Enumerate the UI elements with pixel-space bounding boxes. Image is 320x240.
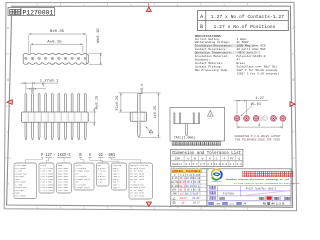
svg-text:0-10: 0-10	[172, 177, 178, 180]
svg-text:P±0.4: P±0.4	[140, 84, 144, 94]
svg-text:Shenzhen LianLian Electronics: Shenzhen LianLian Electronics Technology…	[226, 178, 290, 181]
svg-text:P1270001: P1270001	[23, 9, 54, 16]
svg-text:1.27: 1.27	[255, 97, 264, 101]
svg-text:±0.1: ±0.1	[179, 177, 185, 180]
svg-text:R1: R1	[263, 203, 267, 206]
svg-text:±1°: ±1°	[180, 192, 185, 195]
svg-text:C Cu: C Cu	[98, 181, 103, 184]
svg-text:C: C	[7, 130, 9, 134]
svg-text:±0.5°: ±0.5°	[180, 197, 188, 200]
svg-text::mm: :mm	[216, 203, 221, 206]
svg-text:B: B	[200, 24, 203, 30]
svg-text:SunwayLink: SunwayLink	[212, 181, 222, 183]
svg-text:100-: 100-	[172, 189, 178, 192]
svg-text:Insulation Resistance:: Insulation Resistance:	[195, 44, 233, 48]
svg-text:1:1: 1:1	[230, 203, 235, 206]
svg-text:P1270001: P1270001	[223, 192, 235, 195]
svg-text:±15': ±15'	[194, 192, 200, 195]
svg-text:TAIL(1.0mm): TAIL(1.0mm)	[174, 135, 196, 139]
svg-text:Ø1.63: Ø1.63	[251, 102, 261, 106]
svg-text:Insulation Material:: Insulation Material:	[195, 54, 229, 58]
svg-text:TEL:0755-23456789 CONTACT:1380: TEL:0755-23456789 CONTACT:13800000000 FA…	[233, 182, 300, 185]
svg-text:PCB TOLERANCE:HOLE TOP VIEW: PCB TOLERANCE:HOLE TOP VIEW	[235, 139, 280, 142]
svg-text:-: -	[53, 154, 55, 158]
svg-text:Type D: Type D	[113, 186, 121, 189]
svg-text:±0.15: ±0.15	[179, 181, 187, 184]
svg-text:1XXX 1Row: 1XXX 1Row	[58, 189, 69, 192]
svg-text:Contact Material:: Contact Material:	[195, 61, 224, 65]
svg-text:P=127 TimH/Pin 1002-S: P=127 TimH/Pin 1002-S	[246, 187, 277, 190]
svg-text:1.27 x No.of Positions: 1.27 x No.of Positions	[214, 24, 276, 30]
svg-text:1000 Meg ohms MIN: 1000 Meg ohms MIN	[237, 44, 266, 48]
svg-text:4.2: 4.2	[185, 163, 190, 166]
svg-text:0.4: 0.4	[222, 163, 227, 166]
svg-text:±0.25°: ±0.25°	[192, 197, 201, 200]
svg-text:±0.15: ±0.15	[193, 189, 201, 192]
svg-text:D: D	[7, 182, 9, 186]
svg-text:±0.2: ±0.2	[187, 189, 193, 192]
svg-text:Withstanding Voltage:: Withstanding Voltage:	[195, 40, 231, 44]
svg-text:A4 1:1 B: A4 1:1 B	[272, 203, 285, 206]
svg-text:Pin Header: Pin Header	[15, 194, 26, 197]
svg-text:Current Rating:: Current Rating:	[195, 37, 221, 41]
svg-text:±0.3: ±0.3	[179, 189, 185, 192]
svg-text:2.5: 2.5	[200, 163, 205, 166]
svg-text:±0.02: ±0.02	[193, 177, 201, 180]
svg-text:W±0.15: W±0.15	[97, 28, 101, 43]
svg-text:A: A	[200, 14, 203, 20]
svg-text:20 milli ohms MAX: 20 milli ohms MAX	[237, 47, 266, 51]
svg-text:11.9: 11.9	[214, 163, 221, 166]
svg-text:1.27 1.27mm: 1.27 1.27mm	[40, 189, 53, 192]
svg-text:PC: PC	[230, 158, 234, 161]
svg-text:±1°: ±1°	[181, 202, 186, 205]
svg-text:Dimension and Tolerance List: Dimension and Tolerance List	[172, 151, 241, 156]
svg-text:(260° C for 3-10 seconds): (260° C for 3-10 seconds)	[237, 71, 280, 75]
svg-text:Q: Q	[42, 83, 44, 87]
svg-text:Polyester/UL94V-0: Polyester/UL94V-0	[237, 54, 266, 58]
svg-text:1.27 x No.of Contacts-1.27: 1.27 x No.of Contacts-1.27	[211, 14, 284, 20]
svg-text:L±0.25: L±0.25	[154, 106, 158, 119]
svg-text:-40°C to+105°C: -40°C to+105°C	[237, 51, 261, 55]
svg-text:±0.5°: ±0.5°	[193, 202, 201, 205]
svg-text:PC±0.25: PC±0.25	[116, 96, 120, 111]
svg-text:±0.5°: ±0.5°	[186, 192, 194, 195]
svg-text:SUGGESTED P.C.B HOLES LAYOUT: SUGGESTED P.C.B HOLES LAYOUT	[234, 135, 281, 138]
svg-text:5.7: 5.7	[193, 163, 198, 166]
svg-text:Standard:: Standard:	[195, 58, 211, 62]
svg-text:H±0.15: H±0.15	[96, 95, 100, 109]
svg-text:R Right Angle: R Right Angle	[75, 186, 91, 189]
svg-text:Number: Number	[172, 162, 182, 166]
svg-text:G4 15u" Gold: G4 15u" Gold	[130, 194, 144, 197]
svg-text:Operation Temperature:: Operation Temperature:	[195, 51, 233, 55]
svg-text:±0.1: ±0.1	[187, 181, 193, 184]
svg-text:±0.05: ±0.05	[193, 181, 201, 184]
svg-text:B: B	[292, 78, 294, 82]
svg-text:230° C for 30-60 seconds: 230° C for 30-60 seconds	[237, 68, 278, 72]
svg-text:Gold(flash over 80u" Ni): Gold(flash over 80u" Ni)	[237, 64, 278, 68]
svg-text:B: B	[7, 78, 9, 82]
svg-text:Contact Plating:: Contact Plating:	[195, 64, 223, 68]
svg-text:2.5: 2.5	[207, 163, 212, 166]
svg-text:Contact Resistance:: Contact Resistance:	[195, 47, 228, 51]
svg-text:B±0.35: B±0.35	[50, 30, 65, 34]
svg-text:Max Processing Temp:: Max Processing Temp:	[195, 68, 229, 72]
svg-text:-: -	[105, 154, 107, 158]
svg-text:C: C	[292, 130, 294, 134]
svg-text:2.4: 2.4	[229, 163, 234, 166]
svg-text:DIM: DIM	[175, 158, 180, 161]
svg-text:0.4: 0.4	[237, 163, 242, 166]
svg-text:ANG: ANG	[173, 192, 178, 195]
svg-text:A±0.15: A±0.15	[47, 40, 62, 44]
svg-text:A: A	[7, 26, 9, 30]
svg-text:A: A	[292, 26, 294, 30]
